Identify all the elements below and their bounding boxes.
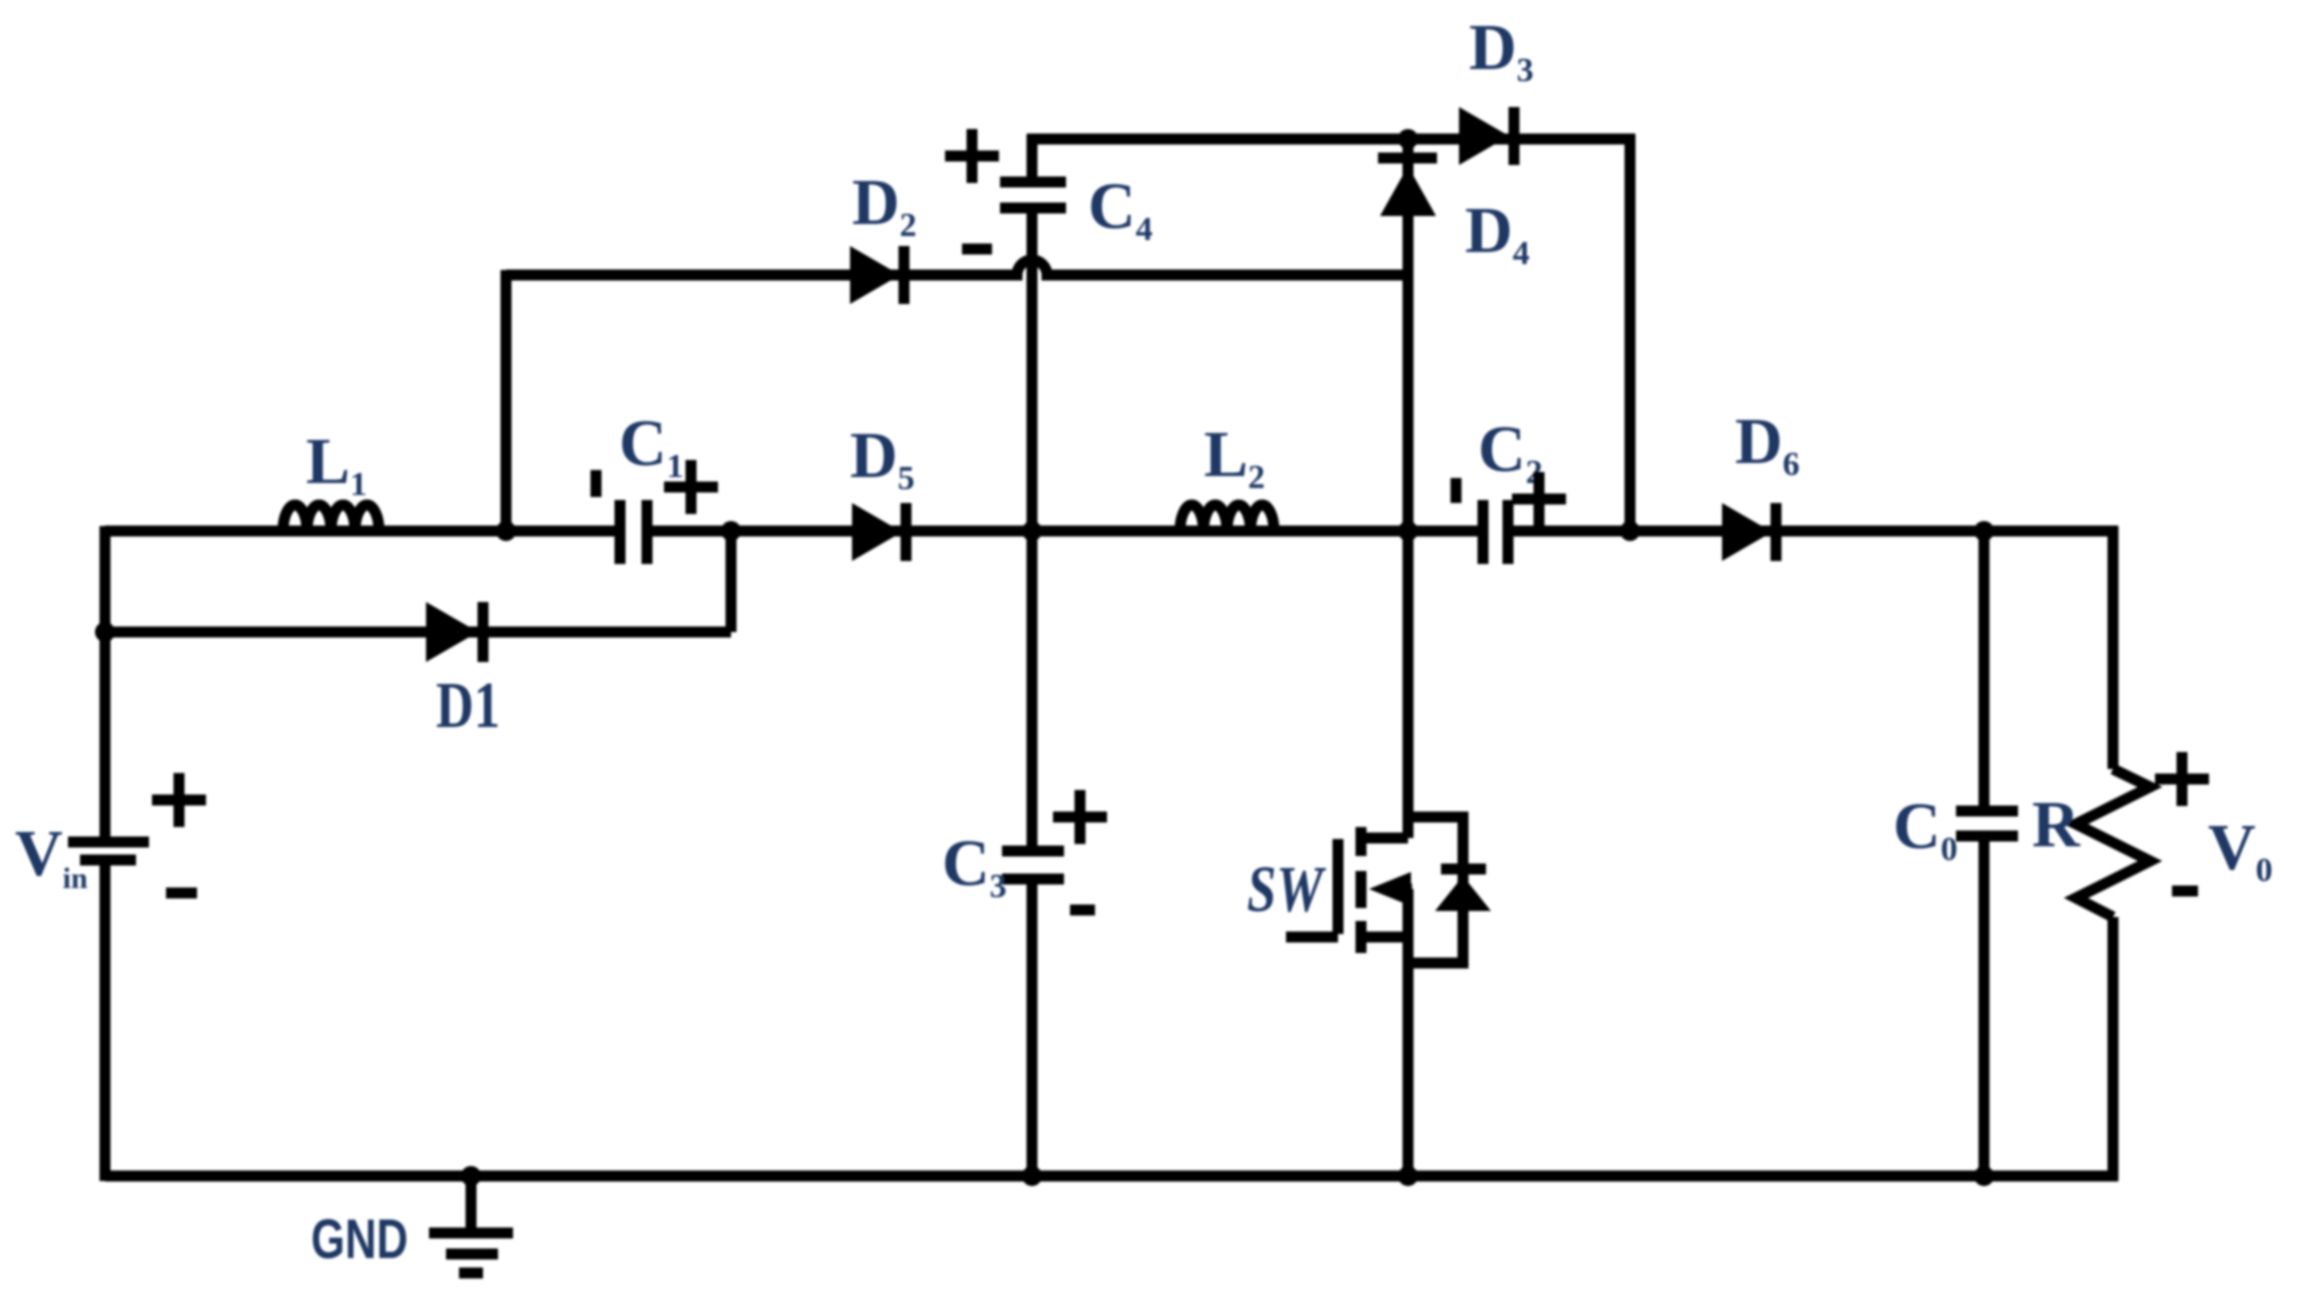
wire: left input vertical lower [100,860,111,1181]
node: left vertical / D1 branch junction [95,622,115,642]
wire: D4/SW column (top node down to MOSFET drain) [1403,134,1414,838]
C4 plus sign [945,129,999,183]
node: main bus / D2 riser junction [496,521,516,541]
battery Vin [68,842,149,860]
wire: top horizontal wire (C4 top to D3 to right corner) [1027,134,1635,145]
wire: R branch vertical lower [2108,917,2119,1181]
capacitor C2 [1483,500,1508,564]
ground symbol [429,1176,513,1273]
diode D6 [1722,503,1776,561]
diode D3 [1459,107,1514,165]
wire: D2 branch horizontal with hop over C4 column [506,260,1403,275]
V0 plus sign [2155,752,2209,806]
transistor SW (MOSFET) [1286,827,1412,953]
wire: C4/C3 column lower (C3 bottom plate to ground bus) [1027,879,1038,1176]
node: ground bus / SW column junction [1398,1166,1418,1186]
wire: D3 output vertical (top wire corner down to main bus) [1625,134,1636,531]
capacitor C1 [620,500,647,564]
C4 minus sign [962,244,992,255]
wire: D4/SW column (MOSFET source down to ground bus) [1403,889,1414,1176]
node: main bus / C1 right junction [721,521,741,541]
node: ground bus / C3 column junction [1022,1166,1042,1186]
wire: riser from main bus to D2 branch [501,270,512,531]
wire: bottom ground bus [105,1171,2118,1182]
channel bar bottom [1356,921,1367,953]
wire: D1 branch horizontal [105,627,731,638]
node: main bus / C0 branch junction [1974,521,1994,541]
wire: C4/C3 column middle (C4 bottom plate to C3 top plate) [1027,208,1038,851]
wire: R branch vertical upper [2108,526,2119,769]
C2 plus sign [1512,472,1566,526]
svg-text:GND: GND [311,1207,408,1270]
inductor L2 [1180,505,1274,531]
capacitor C3 [1002,851,1064,879]
node: top wire / D4 junction [1398,129,1418,149]
svg-text:R: R [2032,788,2081,861]
gate vertical bar [1333,839,1344,934]
capacitor C4 [1000,182,1066,208]
Vin minus sign [166,888,197,899]
C1 polarity tick [591,470,602,497]
source pin [1361,932,1408,943]
resistor R [2076,769,2150,917]
drain pin [1361,833,1408,844]
diode D2 [850,246,904,304]
wire: riser from D1 branch to main bus [726,531,737,632]
channel bar middle [1356,871,1367,908]
gate lead [1286,932,1338,943]
C3 minus sign [1070,905,1095,916]
node: main bus / D3 vertical junction [1620,521,1640,541]
diode D5 [852,503,906,561]
svg-text:SW: SW [1247,853,1326,926]
wire: main horizontal bus right segment [1508,526,2118,537]
wire: left input vertical upper [100,526,111,842]
node: main bus / C4-C3 column junction [1022,521,1042,541]
C3 plus sign [1053,790,1107,844]
V0 minus sign [2172,886,2198,897]
channel bar top [1356,827,1367,856]
capacitor C0 [1956,811,2018,836]
wire: C0 branch vertical lower [1979,836,1990,1176]
source pin vertical [1403,889,1414,937]
C1 plus sign [664,460,718,514]
node: ground bus / GND junction [461,1166,481,1186]
Vin plus sign [152,773,206,827]
wire: C0 branch vertical upper [1979,531,1990,811]
C2 polarity tick [1451,478,1462,503]
inductor L1 [283,505,379,531]
body diode of SW [1408,817,1491,963]
diode D4 (vertical, pointing up) [1378,158,1437,216]
source arrow [1369,872,1411,906]
wire: C4/C3 column upper (top wire to C4 top plate) [1027,134,1038,182]
svg-text:D1: D1 [436,669,500,742]
wire: main horizontal bus left segment [105,526,620,537]
diode D1 [426,602,483,662]
node: ground bus / C0 column junction [1974,1166,1994,1186]
wire: main horizontal bus middle segment [647,526,1483,537]
node: main bus / D4-SW column junction [1398,521,1418,541]
